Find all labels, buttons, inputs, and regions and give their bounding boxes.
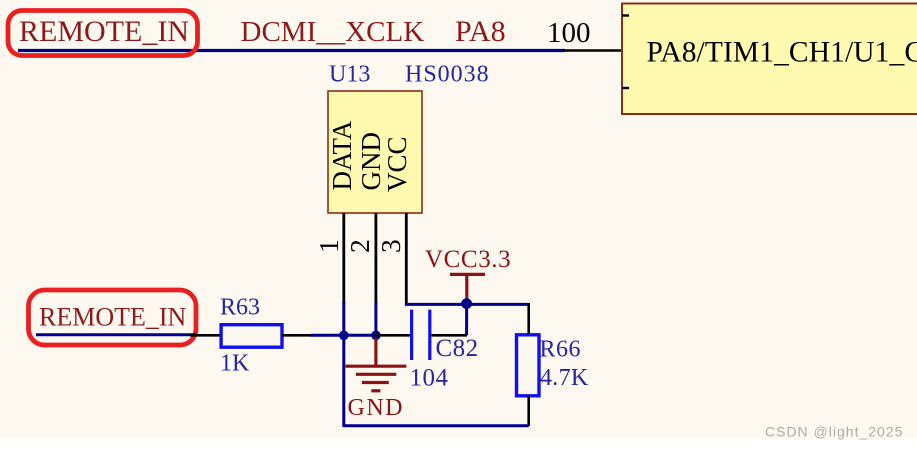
net label REMOTE_IN (top) red highlight box (8, 11, 198, 56)
svg-text:DATA: DATA (327, 120, 357, 190)
junction dot VCC node (461, 298, 472, 309)
pin stub tick (lower) on IC left edge (622, 87, 629, 89)
svg-text:PA8: PA8 (455, 15, 506, 48)
wire: pin 3 to VCC node (horizontal) (405, 303, 529, 306)
svg-text:REMOTE_IN: REMOTE_IN (39, 303, 187, 332)
capacitor C82 right plate (428, 310, 431, 360)
resistor R63 body (221, 325, 282, 348)
capacitor C82 left pin lead (376, 334, 410, 337)
pin 2 lead of U13 (374, 213, 377, 304)
junction dot node pin2/GND (371, 331, 381, 341)
resistor R63 right pin lead (282, 334, 312, 337)
pin 1 lead of U13 (342, 213, 345, 304)
svg-text:1K: 1K (220, 350, 250, 376)
svg-text:3: 3 (375, 239, 406, 253)
junction dot node pin1/R63 (339, 331, 349, 341)
svg-text:GND: GND (348, 395, 405, 421)
pin stub tick (upper) on IC left edge (622, 14, 629, 16)
wire: top horizontal net REMOTE_IN / DCMI__XCLK (18, 49, 565, 52)
ground symbol bar 2 (356, 373, 397, 376)
svg-text:PA8/TIM1_CH1/U1_C: PA8/TIM1_CH1/U1_C (647, 37, 917, 69)
wire: pin 2 down to node (374, 302, 377, 336)
capacitor C82 right pin lead (432, 334, 468, 337)
ground symbol bar 3 (362, 381, 389, 384)
ground symbol bar 1 (346, 365, 407, 368)
wire: horizontal net R63/pin1/pin2/C82 (311, 334, 376, 337)
svg-text:1: 1 (313, 239, 344, 253)
pin 100 lead of right IC (563, 49, 622, 52)
wire: bottom rail pin1 to R66 (344, 424, 529, 427)
svg-text:U13: U13 (329, 61, 370, 87)
capacitor C82 left plate (410, 310, 413, 360)
IC U13 body (HS0038 receiver) (328, 91, 422, 213)
resistor R66 body (517, 335, 540, 396)
ground symbol stem (374, 339, 377, 366)
svg-text:C82: C82 (436, 335, 479, 362)
resistor R66 bottom pin lead (527, 396, 530, 426)
wire: VCC node down to C82 right pin (465, 304, 468, 336)
svg-text:R63: R63 (220, 295, 260, 321)
svg-text:2: 2 (344, 239, 375, 253)
svg-text:4.7K: 4.7K (540, 365, 589, 391)
svg-text:VCC3.3: VCC3.3 (425, 246, 511, 273)
wire: pin 1 down through node to bottom rail (342, 302, 345, 427)
svg-text:R66: R66 (540, 336, 582, 362)
svg-text:HS0038: HS0038 (405, 61, 490, 87)
svg-text:VCC: VCC (382, 136, 412, 192)
svg-text:DCMI__XCLK: DCMI__XCLK (241, 16, 425, 48)
svg-text:CSDN @light_2025: CSDN @light_2025 (765, 424, 903, 440)
net label REMOTE_IN (lower) red highlight box (29, 290, 197, 345)
power symbol VCC3.3 (bar) (450, 273, 485, 276)
svg-text:100: 100 (547, 17, 591, 49)
wire: stub under lower REMOTE_IN label (36, 333, 196, 336)
svg-text:104: 104 (410, 364, 449, 391)
pin 3 lead of U13 (405, 213, 408, 303)
power symbol VCC3.3 (stem) (465, 274, 468, 302)
resistor R63 left pin lead (190, 334, 221, 337)
ground symbol bar 4 (371, 389, 380, 392)
resistor R66 top pin lead (527, 303, 530, 335)
IC sheet-part body (right, partial) (622, 4, 917, 115)
svg-text:REMOTE_IN: REMOTE_IN (19, 15, 189, 48)
